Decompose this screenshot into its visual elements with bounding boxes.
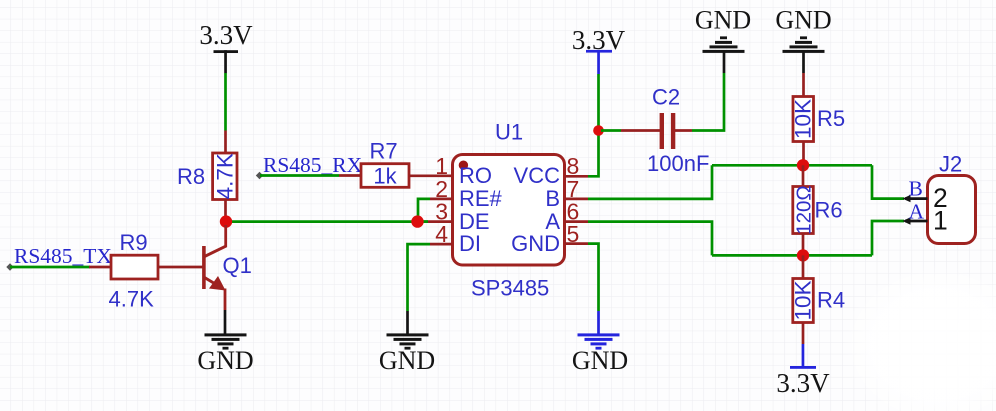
svg-text:B: B: [909, 177, 923, 201]
wire R5 top lead: [802, 73, 805, 97]
svg-text:120Ω: 120Ω: [792, 185, 815, 235]
wire GND stem (R5): [802, 52, 805, 73]
wire RE# to DE net: [418, 199, 430, 222]
svg-text:C2: C2: [652, 85, 680, 110]
svg-text:SP3485: SP3485: [471, 276, 549, 301]
resistor R4: [790, 279, 845, 323]
pin 1 stub (J2): [903, 217, 928, 224]
ground GND (under Q1): [197, 333, 253, 375]
node junction A/R6: [797, 249, 809, 261]
wire 3.3V to R8: [224, 73, 227, 131]
wire R6 bottom lead: [802, 234, 805, 257]
svg-text:R6: R6: [815, 198, 843, 223]
ground GND (under DI): [379, 333, 435, 375]
wire B route: [588, 165, 712, 199]
svg-text:3.3V: 3.3V: [199, 20, 253, 50]
pin 5 stub: [565, 242, 588, 245]
pin 2 stub (J2): [903, 195, 928, 202]
svg-text:1k: 1k: [373, 164, 397, 189]
resistor R9: [109, 230, 159, 312]
svg-text:3.3V: 3.3V: [776, 368, 830, 398]
svg-text:4.7K: 4.7K: [212, 153, 237, 199]
svg-text:GND: GND: [775, 6, 831, 35]
svg-text:R7: R7: [370, 139, 398, 164]
power 3.3V (top left): [199, 20, 253, 73]
wire collector net to DE: [226, 220, 429, 223]
wire VCC net: [588, 74, 599, 176]
power 3.3V (above U1): [572, 25, 626, 74]
svg-text:GND: GND: [197, 346, 253, 375]
connector J2: [928, 152, 976, 244]
wire R9 to Q1 base: [158, 266, 203, 269]
wire GND stem (C2): [723, 50, 726, 73]
node junction VCC/C2: [593, 125, 604, 136]
watermark wipe (bottom right): [843, 265, 996, 411]
svg-text:RO: RO: [459, 163, 492, 188]
wire R7 left lead: [339, 174, 361, 177]
wire R7 to pin 1: [409, 174, 452, 177]
svg-text:10K: 10K: [791, 99, 816, 139]
wire B to J2: [872, 165, 904, 198]
svg-text:100nF: 100nF: [647, 151, 709, 176]
svg-text:VCC: VCC: [514, 163, 561, 188]
pin 4 stub: [430, 243, 452, 246]
wire R9 left lead: [89, 266, 111, 269]
wire A net: [712, 254, 872, 257]
svg-text:4.7K: 4.7K: [109, 287, 155, 312]
wire C2 to GND: [692, 73, 724, 131]
port RS485_TX: [6, 244, 112, 271]
wire R8 bottom lead: [224, 200, 227, 223]
wire R4 bottom lead: [802, 323, 805, 345]
svg-text:DE: DE: [459, 209, 490, 234]
svg-text:10K: 10K: [790, 280, 815, 320]
resistor R7: [361, 139, 409, 189]
svg-text:GND: GND: [695, 6, 751, 35]
wire R8 top lead: [224, 131, 227, 155]
wire A route: [588, 222, 712, 256]
wire GND stem (blue): [597, 311, 600, 336]
pin 8 stub: [565, 175, 588, 178]
ground GND (top, R5): [775, 6, 831, 53]
wire GND net (pin5): [588, 244, 599, 311]
wire Q1 emitter to GND: [224, 310, 227, 336]
ground GND (blue, pin5): [572, 333, 628, 375]
capacitor C2: [647, 85, 709, 177]
svg-text:RE#: RE#: [459, 186, 503, 211]
transistor Q1: [204, 225, 252, 310]
op-amp U1 SP3485: [453, 120, 565, 301]
pin 7 stub: [565, 198, 588, 201]
svg-text:R4: R4: [817, 288, 845, 313]
wire C2 left lead: [621, 129, 660, 132]
pin 2 stub: [430, 198, 452, 201]
svg-text:RS485_TX: RS485_TX: [14, 244, 112, 268]
wire R5 bottom lead: [802, 142, 805, 167]
svg-text:J2: J2: [939, 152, 962, 177]
svg-text:1: 1: [933, 206, 948, 236]
wire R4 top lead: [802, 255, 805, 279]
svg-text:A: A: [909, 200, 925, 224]
node junction on DE: [411, 215, 423, 227]
svg-text:RS485_RX: RS485_RX: [263, 153, 363, 177]
wire A to J2: [872, 221, 904, 255]
svg-text:DI: DI: [459, 231, 481, 256]
power 3.3V (bottom): [776, 344, 830, 398]
resistor R8: [177, 153, 237, 200]
svg-text:R5: R5: [817, 106, 845, 131]
svg-text:R8: R8: [177, 164, 205, 189]
wire DI to GND: [408, 244, 431, 311]
wire RS485_TX: [10, 266, 90, 269]
svg-text:A: A: [545, 209, 560, 234]
pin 6 stub: [565, 220, 588, 223]
wire C2 left: [601, 129, 621, 132]
node junction B/R6: [797, 159, 809, 171]
svg-text:GND: GND: [511, 231, 560, 256]
resistor R5: [791, 97, 846, 142]
svg-text:U1: U1: [495, 120, 523, 145]
wire RS485_RX: [260, 174, 339, 177]
node junction at Q1 collector: [220, 215, 232, 227]
port RS485_RX: [256, 153, 363, 179]
svg-text:GND: GND: [379, 346, 435, 375]
wire B net: [712, 164, 872, 167]
pin 3 stub: [428, 220, 452, 223]
svg-text:Q1: Q1: [223, 253, 252, 278]
svg-text:R9: R9: [120, 230, 148, 255]
svg-text:GND: GND: [572, 346, 628, 375]
ground GND (top, C2): [695, 6, 751, 53]
resistor R6: [792, 185, 842, 235]
wire DI ground lead: [406, 311, 409, 336]
wire C2 right lead: [675, 129, 692, 132]
svg-text:B: B: [545, 186, 560, 211]
wire R6 top lead: [802, 165, 805, 187]
